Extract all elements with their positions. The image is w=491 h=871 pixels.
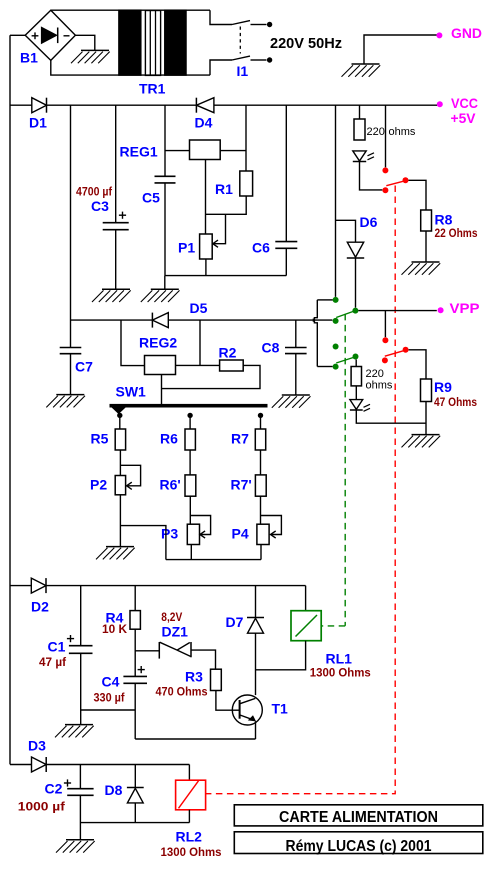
wire C1 to C4 link (81, 709, 136, 711)
svg-text:R6: R6 (160, 431, 178, 447)
resistor R6' (160, 475, 196, 496)
svg-text:C3: C3 (91, 198, 109, 214)
svg-text:DZ1: DZ1 (162, 624, 189, 640)
wire LED1 to relay contact (360, 162, 383, 190)
resistor R1 (215, 171, 253, 197)
wire GND stub (364, 35, 437, 64)
switch SW1 bar (110, 384, 268, 414)
svg-text:D6: D6 (360, 214, 378, 230)
svg-text:SW1: SW1 (116, 384, 147, 400)
wire P4 wiper loop (261, 516, 282, 535)
potentiometer P1 (178, 234, 212, 259)
svg-text:ohms: ohms (389, 126, 416, 138)
resistor R8 (421, 210, 478, 240)
ground at C3 (92, 289, 131, 302)
wire C1 down (80, 653, 82, 710)
wire emitter bottom rail (135, 738, 255, 740)
wire D8 to bottom rail (134, 803, 136, 823)
wire R8 to ground (425, 231, 427, 262)
svg-text:R9: R9 (434, 379, 452, 395)
capacitor C1 (39, 635, 93, 669)
svg-text:RL1: RL1 (326, 651, 353, 667)
wire P1 wiper feed (213, 214, 226, 243)
svg-text:P4: P4 (232, 526, 249, 542)
wire D7 to T1 collector (255, 633, 257, 695)
wire bus to D8 (134, 765, 136, 788)
junction tap 2 (187, 413, 192, 418)
capacitor C7 (60, 348, 93, 375)
wire R4 to C4 (134, 629, 136, 676)
svg-text:R3: R3 (185, 669, 203, 685)
wire P2 to ground (119, 495, 121, 547)
selector contact REG2 (333, 318, 339, 324)
regulator REG2 (139, 335, 177, 375)
wire VPP bus D5 to selector (168, 319, 332, 321)
selector contact B (333, 364, 339, 370)
wire R1 to P1 link (206, 196, 247, 214)
resistor R2 (219, 345, 244, 372)
wire tap1 to R5 (119, 418, 121, 429)
svg-text:D2: D2 (31, 599, 49, 615)
LED LED1 (353, 151, 374, 162)
diode D7 (226, 614, 265, 633)
wire left rail to D3 (10, 764, 32, 766)
svg-text:RL2: RL2 (176, 829, 203, 845)
capacitor C3 (76, 185, 129, 230)
wire R5 to P2 (119, 450, 121, 476)
wire R7' to P4 (260, 496, 262, 524)
wire bus to 220 ohm resistor (359, 105, 361, 119)
junction tap 1 (117, 413, 122, 418)
svg-text:10 K: 10 K (102, 622, 127, 636)
diode D8 (105, 782, 144, 803)
svg-text:220: 220 (367, 126, 385, 138)
svg-text:C6: C6 (252, 240, 270, 256)
ground at B1 (71, 50, 110, 63)
wire bottom rail REG1 group (165, 275, 286, 277)
wire DZ1 to R3 (191, 650, 216, 669)
wire left rail (9, 35, 11, 764)
title box CARTE ALIMENTATION (234, 805, 482, 826)
capacitor C5 (142, 176, 176, 205)
wire rail stub to ground (164, 276, 166, 290)
svg-text:D3: D3 (28, 738, 46, 754)
wire bus to C2 (79, 765, 81, 789)
potentiometer P4 (232, 524, 270, 544)
zener diode DZ1 (159, 610, 191, 659)
transformer TR1 (119, 10, 232, 96)
wire T1 emitter (255, 721, 257, 739)
svg-text:C1: C1 (48, 639, 66, 655)
wire bus to R1 (245, 105, 247, 171)
svg-text:T1: T1 (272, 701, 289, 717)
wire bus to selector contact (335, 105, 337, 297)
wire contact to R8 (409, 180, 427, 210)
svg-text:R2: R2 (219, 345, 237, 361)
wire C6 to bottom rail (285, 248, 287, 275)
wire relay RL1 control (green dashed) (321, 314, 345, 626)
potentiometer P2 (90, 476, 126, 495)
svg-text:1300 Ohms: 1300 Ohms (161, 845, 222, 859)
svg-text:+5V: +5V (451, 110, 477, 126)
ground at R9 (402, 435, 441, 448)
wire C3 to ground (115, 230, 117, 290)
P3 wiper arrow (200, 531, 205, 538)
capacitor C6 (252, 240, 297, 256)
wire left rail to D2 (10, 585, 31, 587)
node VCC +5V (437, 95, 478, 126)
svg-text:VPP: VPP (450, 300, 480, 316)
svg-text:D8: D8 (105, 782, 123, 798)
switch I1 (232, 21, 272, 79)
wire bus D4 to VCC (214, 104, 437, 106)
relay coil RL1 (291, 611, 371, 680)
wire tap2 to R6 (189, 418, 191, 429)
node VPP (438, 300, 480, 316)
ground at C1 (55, 725, 94, 738)
wire B1 left vertex to left rail (10, 34, 25, 36)
svg-text:REG2: REG2 (139, 335, 177, 351)
svg-text:TR1: TR1 (139, 81, 166, 97)
svg-text:I1: I1 (237, 63, 249, 79)
selector contact VCC upper (333, 297, 339, 303)
wire P1 to bottom rail (205, 259, 207, 276)
svg-text:470 Ohms: 470 Ohms (156, 685, 208, 699)
selector common lower (353, 354, 359, 360)
svg-text:C2: C2 (45, 781, 63, 797)
svg-text:R7': R7' (231, 477, 252, 493)
wire bus to C1 (80, 586, 82, 646)
wire R7 to R7' (260, 450, 262, 475)
wire C4 to bottom rail (134, 683, 136, 739)
svg-text:CARTE ALIMENTATION: CARTE ALIMENTATION (279, 809, 438, 826)
diode D2 (31, 578, 49, 614)
selector contact NC (333, 344, 339, 350)
wire B1 right vertex to ground (75, 35, 94, 50)
wire VPP to lower contact (384, 311, 386, 338)
wire REG2 output to VPP bus (199, 320, 201, 365)
wire RL2 bottom (188, 810, 190, 823)
svg-text:B1: B1 (20, 50, 38, 66)
junction tap 3 (258, 413, 263, 418)
svg-text:GND: GND (451, 25, 482, 41)
svg-text:P2: P2 (90, 477, 107, 493)
bridge rectifier B1 (20, 10, 75, 65)
capacitor C8 (262, 320, 307, 355)
potentiometer P3 (161, 524, 200, 544)
wire R6' to P3 (189, 496, 191, 524)
svg-text:R5: R5 (91, 431, 109, 447)
wire contact crossover with hop (313, 300, 317, 367)
svg-text:D1: D1 (29, 115, 47, 131)
relay coil RL2 (161, 780, 222, 859)
wire D3 bus (47, 764, 190, 766)
wire REG2 input (121, 320, 145, 366)
title box author (234, 832, 482, 855)
ground at P2 (96, 547, 135, 560)
wire bus to relay contact upper (385, 105, 387, 167)
wire relay bottom rail (80, 822, 189, 824)
selector common VPP (352, 308, 358, 314)
capacitor C2 (18, 779, 94, 813)
ground at C7 (46, 395, 85, 408)
diode D1 (29, 98, 47, 131)
wire bus to R4 (134, 586, 136, 611)
svg-text:Rémy LUCAS (c) 2001: Rémy LUCAS (c) 2001 (286, 838, 432, 855)
svg-text:220: 220 (366, 368, 384, 380)
resistor R3 (156, 669, 222, 699)
wire RL1 bottom return (256, 641, 306, 670)
relay RL1 contact lower (382, 337, 409, 363)
wire RL2 top (188, 765, 190, 781)
wire pots bottom rail (166, 559, 261, 561)
wire stub to ground (80, 710, 82, 725)
wire DZ1 anode link (135, 650, 159, 652)
capacitor C4 (94, 666, 148, 705)
wire REG1 input pin (165, 150, 190, 152)
wire to contact B (317, 366, 332, 368)
wire C5 to bottom rail (164, 183, 166, 276)
wire bus to C3 (115, 105, 117, 222)
wire bus to C5 (164, 105, 166, 176)
wire RL1 top (305, 586, 307, 611)
wire C8 to ground (295, 354, 297, 395)
wire REG2 output to R2 (176, 364, 220, 366)
svg-text:ohms: ohms (366, 380, 393, 392)
wire REG1 adj pin to P1 (205, 160, 207, 235)
regulator REG1 (120, 140, 221, 160)
resistor R9 (421, 379, 478, 409)
wire P2 wiper loop (120, 465, 140, 486)
svg-text:REG1: REG1 (120, 144, 158, 160)
wire D6 to VPP node (355, 258, 357, 308)
svg-text:D7: D7 (226, 614, 244, 630)
node GND (436, 25, 482, 41)
wire B1 top vertex to transformer (51, 9, 210, 11)
ground at C2 (56, 840, 95, 853)
resistor 220 ohms lower (351, 367, 393, 392)
ground at C8 (272, 395, 311, 408)
resistor 220 ohms upper (354, 119, 416, 140)
svg-text:1300 Ohms: 1300 Ohms (310, 666, 371, 680)
resistor R5 (91, 429, 126, 450)
svg-text:C4: C4 (102, 674, 120, 690)
wire D6 branch (336, 220, 356, 242)
diode D3 (28, 738, 46, 773)
wire bus to C7 and VPP bus (70, 105, 72, 347)
ground at R8 (402, 262, 441, 275)
svg-text:R6': R6' (160, 477, 181, 493)
svg-text:D5: D5 (190, 300, 208, 316)
diode D4 (195, 98, 214, 131)
wire contact B common to resistor (355, 360, 357, 367)
wire B1 bottom vertex to transformer (51, 60, 210, 75)
wire VCC contact feed (317, 299, 333, 301)
wire LED2 to R9 ground (356, 410, 426, 423)
wire R9 to ground (425, 402, 427, 435)
wire contact to R9 (409, 350, 426, 379)
wire REG2 adj pin to SW1 (161, 375, 163, 405)
svg-text:C7: C7 (75, 359, 93, 375)
resistor R7' (231, 475, 267, 496)
svg-text:R7: R7 (231, 431, 249, 447)
ground at GND node (342, 64, 381, 77)
resistor R4 (102, 610, 140, 637)
P4 wiper arrow (271, 531, 276, 538)
svg-text:330 µf: 330 µf (94, 691, 126, 705)
svg-text:8,2V: 8,2V (161, 610, 182, 624)
wire P3 to bottom rail (190, 545, 192, 560)
svg-text:R1: R1 (215, 181, 233, 197)
svg-text:220V 50Hz: 220V 50Hz (270, 35, 342, 52)
wire bus to C6 (285, 105, 287, 241)
P1 wiper arrow (213, 240, 218, 247)
wire P3 wiper loop (190, 516, 210, 535)
wire VPP bus C7 to D5 (71, 319, 153, 321)
wire D2 bus (46, 585, 305, 587)
label 220V 50Hz (270, 35, 342, 52)
ground at REG1 rail (141, 289, 180, 302)
wire C7 to ground (70, 354, 72, 395)
svg-text:P3: P3 (161, 526, 178, 542)
resistor R6 (160, 429, 195, 450)
svg-text:C5: C5 (142, 190, 160, 206)
relay RL2 contact upper (382, 167, 408, 193)
wire VPP line (358, 310, 436, 312)
P2 wiper arrow (127, 482, 132, 489)
svg-text:C8: C8 (262, 340, 280, 356)
selector blade lower (green) (336, 357, 355, 363)
wire R3 to T1 base (216, 691, 240, 711)
diode D5 (152, 300, 207, 328)
LED LED2 (350, 386, 370, 411)
svg-text:P1: P1 (178, 240, 195, 256)
svg-text:1000 µf: 1000 µf (18, 800, 66, 814)
wire D7 collector line (255, 586, 257, 618)
wire R6 to R6' (189, 450, 191, 475)
wire relay RL2 control (red dashed) (206, 186, 396, 794)
wire P4 to bottom rail (260, 545, 262, 560)
wire pot return link (120, 526, 165, 560)
svg-text:22 Ohms: 22 Ohms (435, 226, 478, 240)
wire bus D1 to D4 (47, 104, 197, 106)
wire C2 down to ground (79, 795, 81, 840)
diode D6 (347, 214, 378, 258)
wire bus left rail to D1 (10, 104, 32, 106)
wire REG1 output pin (220, 150, 246, 152)
svg-text:4700 µf: 4700 µf (76, 185, 113, 199)
svg-text:47 Ohms: 47 Ohms (434, 395, 477, 409)
svg-text:VCC: VCC (451, 95, 478, 111)
resistor R7 (231, 429, 266, 450)
transistor T1 (232, 695, 288, 725)
selector blade upper (green) (336, 311, 355, 318)
wire R2 to adj return (162, 365, 261, 388)
svg-text:D4: D4 (195, 115, 213, 131)
wire tap3 to R7 (260, 418, 262, 429)
svg-text:47 µf: 47 µf (39, 655, 67, 669)
